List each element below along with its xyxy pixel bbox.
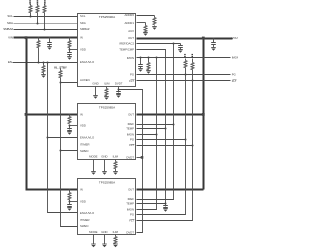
node U1 right pin labels [119,13,134,83]
svg-text:TEMP: TEMP [126,202,134,206]
wire EN from left edge [13,62,79,64]
capacitor C2 VDD U1 [67,50,72,57]
svg-text:ENA/UVLO: ENA/UVLO [80,211,95,215]
svg-text:TEMP/CMP: TEMP/CMP [119,47,134,51]
svg-text:ADDR1: ADDR1 [125,21,135,25]
node U2 FLT overline [131,144,135,146]
wire TEMP bus [137,50,167,204]
ground C1 [47,47,52,50]
svg-text:GND: GND [101,230,107,234]
svg-text:IN: IN [80,36,83,40]
svg-text:OUT: OUT [128,187,134,191]
svg-text:DVDT: DVDT [126,155,134,159]
resistor R11 ADDR0 [137,16,157,30]
node SDA label [7,21,13,25]
svg-text:MODE: MODE [89,230,98,234]
node U3 right pin labels [126,187,134,234]
op-amp U2 eFuse TPS25985 box [78,104,136,160]
node U3 title [99,181,115,185]
ground C4 [67,208,72,211]
node EN label [8,60,12,64]
svg-text:VOUT: VOUT [232,36,238,40]
wire SMBA# from left edge [14,29,79,31]
svg-text:PG: PG [130,138,134,142]
node U2 left pin labels [80,112,95,153]
node U3 FLT overline [131,219,135,221]
capacitor C3 VDD U2 [67,126,72,132]
wire SCL from left edge [14,16,79,18]
wire VIN thick input bus [14,37,79,39]
node SCL label [7,14,13,18]
node U1 FLT overline [131,79,135,81]
resistor R16 ILIM U2 [113,160,118,175]
svg-text:IREF: IREF [128,122,135,126]
svg-text:ENA/UVLO: ENA/UVLO [80,60,95,64]
node U1 title [99,15,115,19]
svg-text:IREF/DAC2: IREF/DAC2 [119,41,134,45]
node IMON label [232,56,239,60]
resistor R14 PG pull-up [184,59,187,75]
svg-text:SMBA#: SMBA# [80,27,90,31]
wire VIN rail vertical thick [27,38,79,190]
svg-text:FLT: FLT [129,143,134,147]
node junction VIN rail [25,36,28,116]
resistor R15 FLT pull-up [191,59,194,81]
wire PG bus vertical [137,75,187,215]
svg-text:ADDR0: ADDR0 [125,13,135,17]
node U3 left pin labels [80,187,95,228]
svg-text:FLT: FLT [129,218,134,222]
svg-text:PG: PG [232,73,236,77]
resistor R10 ILIM U1 [104,87,109,100]
svg-text:SCL: SCL [7,14,13,18]
resistor R2 SDA pull-up [36,4,39,25]
ground C2 [67,57,72,60]
svg-text:ILIM: ILIM [113,230,119,234]
resistor R13 IMON [146,58,151,74]
svg-text:AUXEN: AUXEN [80,78,90,82]
node U2 bottom pin labels [89,154,119,158]
wire SDA from left edge [14,23,79,25]
capacitor C7 IREF [178,44,183,53]
node U1 bottom pin labels [92,82,122,86]
resistor R7 AUXEN pull [59,69,79,84]
svg-text:GND: GND [92,82,98,86]
svg-text:PG: PG [130,72,134,76]
resistor R6 VDD filter U1 [68,37,79,51]
op-amp U1 eFuse TPS25990 box [78,14,136,87]
capacitor C9 IMON [138,58,143,72]
capacitor C8 TEMP [163,203,168,212]
svg-text:TPS25985A: TPS25985A [99,181,115,185]
wire VOUT thick bus [137,39,233,190]
node VOUT label [232,36,240,40]
node VAUX label rotated R1 [29,0,31,4]
wire FLT bus vertical [137,81,194,221]
svg-text:ILIM: ILIM [104,82,110,86]
node FLT label [232,79,237,83]
ground C3 [67,132,72,135]
svg-text:GND: GND [101,154,107,158]
ground U2 GND pin [102,160,107,175]
svg-text:SWEN: SWEN [80,149,88,153]
svg-text:VDD: VDD [80,48,86,52]
node U2 title [99,105,115,109]
resistor R3 SMBA# pull-up [43,4,46,31]
svg-text:VDD: VDD [80,199,86,203]
svg-text:IMON: IMON [127,56,134,60]
svg-text:VDD: VDD [80,124,86,128]
capacitor C4 VDD U3 [67,202,72,208]
node U3 bottom pin labels [89,230,119,234]
capacitor C1 input [47,37,52,47]
svg-text:OUT: OUT [128,112,134,116]
svg-text:MODE: MODE [89,154,98,158]
resistor R17 ILIM U3 [113,235,118,248]
resistor R5 UVLO divider bottom [42,62,45,75]
svg-text:DVDT: DVDT [115,82,123,86]
svg-text:ITIMER: ITIMER [80,143,89,147]
op-amp U3 eFuse TPS25985 box [78,179,136,235]
wire IMON bus vertical [137,58,158,210]
svg-text:ITIMER: ITIMER [80,218,89,222]
ground U3 GND pin [102,235,107,248]
capacitor C5 DVDT U1 [116,87,121,98]
svg-text:DVDT: DVDT [126,230,134,234]
node VAUX label rotated R2 [37,0,39,4]
node U1 left pin labels [80,14,95,82]
svg-text:EN: EN [8,60,12,64]
svg-text:VIN: VIN [8,36,13,40]
svg-text:IMON: IMON [232,56,238,60]
svg-text:AUX: AUX [128,29,134,33]
node U2 right pin labels [126,112,134,159]
resistor R8 VDD filter U2 [68,114,79,127]
svg-text:IMON: IMON [127,208,134,212]
wire SWEN bus vertical [60,83,79,227]
svg-text:ILIM: ILIM [113,154,119,158]
svg-text:IREF: IREF [128,197,135,201]
node VAUX label rotated R3 [44,0,46,4]
node V5 label FLT [192,54,194,57]
svg-text:IMON: IMON [127,132,134,136]
node VIN label [8,36,13,40]
svg-text:SWEN: SWEN [80,224,88,228]
wire IREF bus [137,43,181,200]
resistor R4 UVLO divider top [37,37,40,64]
svg-text:SDA: SDA [80,21,86,25]
wire DVDT bus [119,90,144,233]
wire IMON line [137,57,231,59]
svg-text:TEMP: TEMP [126,126,134,130]
svg-text:TPS25985A: TPS25985A [99,105,115,109]
resistor R9 VDD filter U3 [68,189,79,203]
ground U3 MODE pin [91,235,96,248]
wire FLT line [137,80,231,82]
node FLT label overline [233,79,237,81]
wire EN bus vertical [47,62,79,213]
node UL_STBY label [54,65,67,69]
node V5 label PG [184,54,186,57]
ground U1 GND pin [93,87,98,99]
ground R5 [41,75,46,78]
capacitor C6 output [211,38,216,51]
resistor R12 ADDR1 [137,23,148,36]
svg-text:IN: IN [80,187,83,191]
svg-text:IN: IN [80,112,83,116]
node SMBA# label [3,27,13,31]
svg-text:TPS25990A: TPS25990A [99,15,115,19]
svg-text:SMBA#: SMBA# [3,27,13,31]
svg-text:PG: PG [130,213,134,217]
resistor R1 SCL pull-up [29,4,32,18]
node junction VOUT [202,37,205,116]
svg-text:SCL: SCL [80,14,86,18]
node PG label [232,73,236,77]
wire PG line [137,74,231,76]
svg-text:OUT: OUT [128,36,134,40]
svg-text:ENA/UVLO: ENA/UVLO [80,136,95,140]
ground U2 MODE pin [91,160,96,175]
svg-text:SDA: SDA [7,21,13,25]
